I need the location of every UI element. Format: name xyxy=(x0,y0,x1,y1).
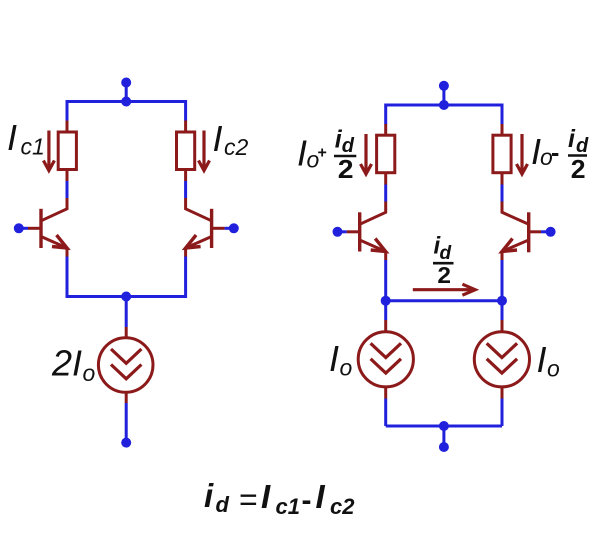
svg-text:c2: c2 xyxy=(224,134,249,160)
wire: Q1 base blue stub + base terminal dot xyxy=(19,227,28,230)
current arrow Ic1 (down) xyxy=(43,131,54,171)
Q2 base lead (red part) xyxy=(212,227,225,230)
wire: red stub below resistor R1 xyxy=(66,169,69,181)
label Ic1 xyxy=(7,117,45,159)
current arrow Io+id/2 (down) xyxy=(361,134,372,174)
label Io (right source) xyxy=(537,339,561,382)
wire: red stub into resistor R4 top xyxy=(501,124,504,137)
wire: red stub below resistor R2 xyxy=(184,169,187,181)
Q2 emitter lead xyxy=(186,237,212,249)
wire: top stub (left circuit) xyxy=(125,83,128,102)
label Io-id/2 xyxy=(531,125,589,184)
Q1 base bar xyxy=(39,209,42,248)
svg-text:2: 2 xyxy=(437,262,451,288)
Q4 emitter arrowhead xyxy=(502,239,517,252)
node: top terminal dot (right circuit) xyxy=(439,81,449,91)
wire: red stub into resistor R2 top xyxy=(184,121,187,134)
Q1 emitter lead xyxy=(41,237,67,249)
current source 2Io: circle xyxy=(98,338,153,393)
node: emitter rail junction dot left xyxy=(381,296,391,306)
svg-text:+: + xyxy=(318,145,327,162)
node: emitter rail junction dot right xyxy=(497,296,507,306)
svg-text:I: I xyxy=(7,117,17,158)
wire: Q3 emitter red stub xyxy=(384,252,387,261)
resistor R4 (right) xyxy=(493,135,511,173)
Q3 collector lead xyxy=(360,202,386,225)
label 2Io xyxy=(51,343,96,387)
wire: red stub into source top xyxy=(125,327,128,339)
node: bottom terminal dot (right circuit) xyxy=(439,442,449,452)
wire: red stub into left source xyxy=(384,320,387,333)
current source Io left: circle xyxy=(358,332,413,387)
label id/2 (emitter current fraction) xyxy=(433,233,454,289)
Q4 emitter lead xyxy=(502,240,529,252)
node: top rail junction dot (right circuit) xyxy=(439,100,449,110)
svg-text:2I: 2I xyxy=(51,343,82,384)
node: top rail junction dot (left circuit) xyxy=(121,97,131,107)
wire: blue to bottom terminal xyxy=(125,403,128,440)
wire: Q2 base blue stub + base terminal dot xyxy=(225,227,234,230)
svg-text:i: i xyxy=(204,477,214,514)
wire: Q1 emitter red stub xyxy=(66,248,69,257)
wire: red stub into resistor R3 top xyxy=(384,124,387,137)
node: bottom rail junction dot (right circuit) xyxy=(439,421,449,431)
wire: red stub into resistor R1 top xyxy=(66,121,69,134)
wire: top rail (left circuit) xyxy=(67,102,186,122)
svg-text:c2: c2 xyxy=(330,494,355,519)
Q3 base bar xyxy=(358,212,361,251)
wire: Q2 emitter red stub xyxy=(184,248,187,257)
node: bottom terminal dot (left circuit) xyxy=(121,438,131,448)
Q4 base lead (red part) xyxy=(529,230,541,233)
label Ic2 xyxy=(213,118,249,160)
svg-text:I: I xyxy=(297,133,307,174)
transistor Q3 (left) xyxy=(347,202,386,252)
svg-text:i: i xyxy=(568,125,576,153)
svg-text:o: o xyxy=(547,356,560,382)
wire: blue segment R4 to Q4 collector xyxy=(501,185,504,202)
svg-text:-: - xyxy=(302,484,312,517)
svg-text:o: o xyxy=(83,360,96,386)
Q2 emitter arrowhead xyxy=(186,235,201,248)
svg-text:I: I xyxy=(213,118,223,159)
wire: blue segment R3 to Q3 collector xyxy=(384,185,387,202)
Q1 emitter arrowhead xyxy=(52,235,67,248)
wire: right source top (blue) xyxy=(501,301,504,320)
current arrow Ic2 (down) xyxy=(199,131,210,171)
current source 2Io: chevron 2 xyxy=(111,365,141,379)
Q4 collector lead xyxy=(502,202,529,225)
Q1 base lead (red part) xyxy=(28,227,41,230)
wire: red stub below resistor R3 xyxy=(384,172,387,185)
svg-text:I: I xyxy=(329,338,339,379)
svg-text:c1: c1 xyxy=(21,134,45,160)
svg-text:2: 2 xyxy=(571,154,586,184)
wire: Q3 base blue stub + base terminal dot xyxy=(338,230,347,233)
resistor R3 (left) xyxy=(377,135,395,173)
svg-text:2: 2 xyxy=(338,154,354,184)
wire: bottom rail (left circuit) xyxy=(67,257,186,297)
wire: left source top (blue) xyxy=(384,301,387,320)
wire: red stub below resistor R4 xyxy=(501,172,504,185)
label Io (left source) xyxy=(329,338,353,381)
Q4 base bar xyxy=(527,212,530,252)
node: bottom rail junction dot (left circuit) xyxy=(121,292,131,302)
svg-text:=: = xyxy=(239,482,258,518)
current source Io left: chevron 1 xyxy=(371,343,401,357)
svg-text:o: o xyxy=(340,355,353,381)
node: top terminal dot (left circuit) xyxy=(121,78,131,88)
current source Io right: chevron 1 xyxy=(487,343,517,357)
wire: blue segment R2 to Q2 collector xyxy=(184,181,187,198)
svg-text:d: d xyxy=(440,243,452,264)
svg-text:I: I xyxy=(316,478,326,515)
wire: blue segment R1 to Q1 collector xyxy=(66,181,69,198)
current arrow Io-id/2 (down) xyxy=(517,134,528,174)
wire: junction down to current source (blue) xyxy=(125,297,128,328)
wire: stub to bottom terminal (right circuit) xyxy=(442,426,445,445)
resistor R2 (right) xyxy=(177,132,195,170)
wire: red stub into right source xyxy=(501,320,504,333)
svg-text:c1: c1 xyxy=(276,494,300,519)
Q3 emitter arrowhead xyxy=(371,239,386,252)
wire: Q4 emitter red stub xyxy=(501,252,504,261)
current arrow id/2 (right) xyxy=(413,284,475,295)
wire: red stub below right source xyxy=(501,386,504,399)
svg-text:I: I xyxy=(261,478,271,515)
equation id = Ic1 - Ic2 xyxy=(204,477,355,519)
wire: top stub (right circuit) xyxy=(442,86,445,105)
wire: bottom rail (right circuit) xyxy=(386,425,502,428)
transistor Q2 (right, mirrored) xyxy=(186,198,225,248)
Q1 collector lead xyxy=(41,198,67,221)
wire: red stub below source xyxy=(125,392,128,404)
Q3 emitter lead xyxy=(360,240,386,252)
resistor R1 (left) xyxy=(58,132,76,170)
Q3 base lead (red part) xyxy=(347,230,360,233)
current source Io right: chevron 2 xyxy=(487,359,517,373)
transistor Q4 (right, mirrored) xyxy=(502,202,541,253)
wire: Q4 base blue stub + base terminal dot xyxy=(541,230,551,233)
current source Io right: circle xyxy=(474,332,529,387)
svg-text:I: I xyxy=(537,339,547,380)
Q2 collector lead xyxy=(186,198,212,221)
wire: emitter rail (right circuit) xyxy=(384,260,387,301)
wire: red stub below left source xyxy=(384,386,387,399)
wire: blue below right source xyxy=(501,399,504,427)
svg-text:-: - xyxy=(551,139,559,167)
current source 2Io: chevron 1 xyxy=(111,349,141,363)
current source Io left: chevron 2 xyxy=(371,359,401,373)
transistor Q1 (left) xyxy=(28,198,67,248)
wire: blue below left source xyxy=(384,399,387,427)
wire: top rail (right circuit) xyxy=(386,105,502,125)
Q2 base bar xyxy=(210,209,213,248)
svg-text:d: d xyxy=(216,492,230,517)
label Io+id/2 xyxy=(297,126,356,185)
